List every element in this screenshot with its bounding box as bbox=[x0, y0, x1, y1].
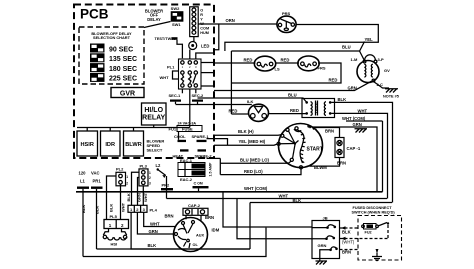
svg-text:1.5 AMP: 1.5 AMP bbox=[209, 162, 213, 176]
svg-text:CAP-2: CAP-2 bbox=[188, 203, 201, 208]
svg-text:GRN: GRN bbox=[353, 122, 362, 127]
svg-text:PL2: PL2 bbox=[116, 167, 124, 172]
bus BLK lower bbox=[250, 198, 392, 203]
wire PL1 col3 up bbox=[196, 53, 214, 59]
inducer motor IDM bbox=[174, 218, 220, 252]
svg-text:PL1: PL1 bbox=[167, 64, 175, 69]
dip switch 90 SEC bbox=[90, 44, 133, 54]
svg-text:WHT (COM): WHT (COM) bbox=[244, 186, 268, 191]
svg-text:BLK: BLK bbox=[148, 243, 157, 248]
wire BLU(MED LO) speed tap bbox=[220, 157, 291, 163]
svg-text:PCB: PCB bbox=[80, 7, 109, 22]
svg-text:BRN: BRN bbox=[325, 129, 334, 134]
relay HI/LO RELAY bbox=[142, 103, 167, 125]
ground chassis (motor) bbox=[355, 129, 368, 133]
svg-text:RED: RED bbox=[290, 108, 299, 113]
terminal COOL bbox=[174, 132, 186, 143]
svg-text:BLK: BLK bbox=[126, 193, 131, 201]
blower-off delay selection chart box bbox=[79, 27, 144, 84]
gas valve GV bbox=[351, 51, 391, 87]
pointer line from SW1 to chart bbox=[144, 22, 171, 28]
wire TEST pad to PL1 bbox=[177, 40, 182, 59]
svg-text:TRAN: TRAN bbox=[314, 102, 319, 113]
terminal SPARE-2 bbox=[195, 149, 221, 158]
svg-text:WHT: WHT bbox=[150, 221, 160, 226]
svg-text:RED (LO): RED (LO) bbox=[244, 169, 263, 174]
svg-text:180 SEC: 180 SEC bbox=[109, 66, 137, 73]
svg-text:PRS: PRS bbox=[282, 11, 291, 16]
wire RED LS to FRS bbox=[275, 57, 299, 63]
terminal SPARE-1 bbox=[192, 134, 228, 145]
interlock switch ILK bbox=[247, 99, 269, 121]
svg-text:WHT: WHT bbox=[121, 202, 126, 212]
switch SW2/SW1 dip bbox=[171, 6, 184, 27]
rollout switch FRS bbox=[298, 56, 326, 71]
svg-text:YEL: YEL bbox=[365, 37, 374, 42]
svg-text:BRN: BRN bbox=[205, 215, 214, 220]
svg-text:1-M: 1-M bbox=[351, 57, 359, 62]
wire branch down from ORN bbox=[214, 24, 219, 50]
wire RED from FRS loop to transformer bottom-left bbox=[229, 108, 307, 114]
terminal SEC-1 bbox=[169, 93, 182, 104]
wire BRN motor to CAP-1 top bbox=[314, 128, 340, 138]
PCB board outline (dashed) bbox=[74, 5, 214, 159]
svg-text:Y: Y bbox=[200, 18, 203, 22]
svg-text:HSI: HSI bbox=[111, 242, 118, 247]
fuse FU2 bbox=[362, 222, 389, 234]
wire PL1 col2 down to relay bus bbox=[189, 89, 191, 128]
svg-text:3: 3 bbox=[149, 182, 151, 186]
dip switch 135 SEC bbox=[90, 53, 137, 63]
fuse FU1 24VAC-3A bbox=[169, 121, 203, 131]
svg-text:L1: L1 bbox=[80, 178, 86, 183]
dip switch 225 SEC bbox=[90, 73, 137, 83]
wire into PL2 pin1 bbox=[107, 176, 117, 220]
svg-text:SELECT: SELECT bbox=[147, 148, 163, 153]
terminal L1 bbox=[77, 187, 89, 257]
terminal PR2 bbox=[161, 176, 173, 199]
wire PL1 rows to right bbox=[201, 62, 214, 64]
dip switch 180 SEC bbox=[90, 63, 137, 73]
svg-text:90 SEC: 90 SEC bbox=[109, 46, 133, 53]
svg-text:BLU: BLU bbox=[288, 93, 297, 98]
field power labels 120 VAC L1 PR1 bbox=[79, 171, 102, 184]
svg-text:(WHT): (WHT) bbox=[342, 240, 355, 245]
TEST/TWIN pads bbox=[155, 37, 178, 41]
svg-text:BRN: BRN bbox=[165, 214, 174, 219]
blower off delay label bbox=[145, 9, 163, 22]
ground below JB bbox=[316, 261, 328, 265]
svg-text:BLK: BLK bbox=[95, 206, 100, 214]
svg-text:SW2: SW2 bbox=[171, 6, 180, 11]
svg-text:IDM: IDM bbox=[212, 228, 220, 233]
svg-text:GRN: GRN bbox=[137, 193, 142, 202]
wire PL3 pin2 to PL4 bbox=[138, 178, 140, 206]
svg-text:PL5: PL5 bbox=[110, 214, 118, 219]
svg-text:2: 2 bbox=[126, 182, 128, 186]
blower motor BLWM bbox=[277, 124, 327, 170]
svg-text:GRN: GRN bbox=[318, 243, 327, 248]
svg-text:COOL: COOL bbox=[174, 134, 186, 139]
wire PL4 pin3 WHT to IDM bbox=[144, 212, 176, 226]
wire PL2 pin2 down to PL5 bbox=[120, 184, 122, 220]
wire BRN CAP-1 bottom to motor bbox=[310, 158, 347, 167]
svg-text:PR2: PR2 bbox=[162, 183, 171, 188]
svg-text:1: 1 bbox=[149, 171, 151, 175]
svg-text:RED: RED bbox=[329, 78, 338, 83]
svg-text:SELECTION CHART: SELECTION CHART bbox=[93, 35, 131, 40]
dashed lead disconnect internal bbox=[376, 225, 389, 253]
svg-text:PL4: PL4 bbox=[150, 207, 158, 212]
wire BLK(H) speed tap bbox=[214, 129, 281, 135]
wire BRN cap-2 left bbox=[165, 214, 187, 220]
svg-text:DELAY: DELAY bbox=[147, 17, 161, 22]
svg-text:BLK (H): BLK (H) bbox=[238, 129, 254, 134]
svg-text:SW1: SW1 bbox=[172, 22, 181, 27]
wire RED(LO) speed tap bbox=[220, 158, 301, 174]
svg-text:WHT: WHT bbox=[358, 108, 368, 113]
svg-text:RELAY: RELAY bbox=[142, 114, 165, 121]
switch L2 bbox=[156, 163, 166, 178]
wire WHT transformer to right vertical bbox=[332, 108, 388, 198]
svg-text:GV: GV bbox=[384, 68, 390, 73]
labels JB wires BLK WHT BRN bbox=[342, 230, 355, 255]
terminal strip O R Y W COM HUM bbox=[190, 7, 209, 37]
connector PL3 bbox=[139, 163, 151, 186]
bus WHT middle bbox=[167, 193, 388, 198]
svg-text:PR1: PR1 bbox=[93, 178, 102, 183]
svg-text:HUM: HUM bbox=[200, 31, 209, 35]
svg-text:ILK: ILK bbox=[247, 99, 254, 104]
LED bbox=[189, 37, 210, 50]
wire BLK transformer to right vertical bbox=[332, 97, 393, 202]
svg-text:HSIR: HSIR bbox=[81, 142, 94, 148]
svg-text:225 SEC: 225 SEC bbox=[109, 76, 137, 83]
svg-text:RED: RED bbox=[281, 57, 290, 62]
svg-text:VAC: VAC bbox=[91, 171, 100, 176]
terminal HEAT bbox=[173, 149, 189, 158]
svg-text:OL: OL bbox=[193, 243, 199, 247]
wire RED from PL1 to LS bbox=[214, 57, 256, 63]
wire WHT to JB bbox=[237, 199, 327, 239]
wire SEC-1 to ILK bbox=[176, 104, 252, 106]
svg-text:PL3: PL3 bbox=[140, 163, 148, 168]
wire FRS return loop RED bbox=[231, 63, 341, 83]
limit switch LS bbox=[254, 56, 280, 71]
svg-text:WHT (COM): WHT (COM) bbox=[342, 116, 366, 121]
svg-text:START: START bbox=[307, 146, 323, 152]
svg-text:ORN: ORN bbox=[226, 18, 235, 23]
connector PL1 bbox=[167, 59, 201, 89]
svg-text:AUX: AUX bbox=[196, 234, 204, 238]
svg-text:COM: COM bbox=[200, 27, 209, 31]
svg-text:BLK: BLK bbox=[338, 97, 347, 102]
wire PL3 pin1 loop to PL4 bbox=[132, 172, 140, 205]
svg-text:RED: RED bbox=[244, 57, 253, 62]
wire BLU corner down to transformer line bbox=[230, 51, 232, 114]
svg-text:BRN: BRN bbox=[337, 161, 346, 166]
svg-text:WHT: WHT bbox=[143, 192, 148, 202]
wire PL3 pin3 to PL4 bbox=[142, 186, 144, 205]
svg-text:C: C bbox=[194, 180, 197, 185]
svg-text:FRS: FRS bbox=[318, 66, 326, 71]
wire PL1 pins down to SEC terminals bbox=[182, 89, 195, 93]
svg-text:WHT: WHT bbox=[160, 75, 170, 80]
wire PRS to right and down (YEL return) bbox=[225, 25, 378, 52]
terminal PR1 bbox=[91, 187, 103, 250]
svg-text:GVR: GVR bbox=[120, 91, 135, 98]
transformer TRAN bbox=[302, 99, 335, 118]
EAC-1 EAC-2 terminals bbox=[178, 158, 213, 182]
svg-text:1: 1 bbox=[126, 175, 128, 179]
svg-text:WHT: WHT bbox=[279, 193, 289, 198]
connector PL4 bbox=[128, 205, 158, 212]
svg-text:2: 2 bbox=[149, 176, 151, 180]
fused disconnect dashed box bbox=[358, 216, 402, 261]
svg-text:BLK: BLK bbox=[293, 198, 302, 203]
svg-text:BLWR: BLWR bbox=[125, 142, 141, 148]
svg-text:SWITCH (WHEN REQ'D): SWITCH (WHEN REQ'D) bbox=[352, 210, 396, 214]
connector PL5 bbox=[104, 214, 129, 229]
wire PL4 pin2 GRN to IDM bbox=[137, 212, 174, 234]
dashed leads JB to disconnect bbox=[340, 226, 389, 249]
wire WHT(COM) right vertical bbox=[342, 116, 383, 192]
svg-text:HI/LO: HI/LO bbox=[144, 107, 163, 114]
svg-text:3-P: 3-P bbox=[378, 57, 385, 62]
svg-text:L2: L2 bbox=[156, 163, 162, 168]
svg-text:EAC-2: EAC-2 bbox=[180, 177, 193, 182]
svg-text:NOTE #5: NOTE #5 bbox=[383, 95, 399, 99]
wire SEC-2 to transformer BLU bbox=[198, 93, 307, 103]
wire BLK net to JB bbox=[83, 192, 328, 257]
capacitor CAP-2 bbox=[183, 203, 208, 215]
wire BRN cap-2 right bbox=[201, 215, 214, 221]
wire PL4 pin1 BLK to IDM/OL bbox=[131, 212, 250, 249]
wire YEL(MED HI) speed tap bbox=[214, 139, 277, 145]
terminal SEC-2 bbox=[192, 93, 205, 104]
svg-text:BLK: BLK bbox=[342, 230, 351, 235]
svg-text:GRN: GRN bbox=[149, 229, 158, 234]
svg-text:BLK: BLK bbox=[81, 205, 86, 213]
motor winding ticks bbox=[309, 125, 317, 131]
svg-text:IDR: IDR bbox=[105, 142, 115, 148]
bus WHT (COM) bbox=[76, 186, 383, 192]
wire ORN from strip to PRS bbox=[198, 18, 277, 24]
wire GRN to GV 2-C and note 5 ground bbox=[214, 81, 389, 91]
svg-text:BLU (MED LO): BLU (MED LO) bbox=[240, 157, 269, 162]
svg-text:FU2: FU2 bbox=[365, 231, 372, 235]
relay boxes HSIR IDR BLWR bbox=[77, 131, 144, 156]
igniter HSI bbox=[103, 229, 127, 247]
svg-text:BLK: BLK bbox=[109, 204, 114, 212]
connector PL2 bbox=[116, 167, 128, 186]
capacitor CAP-1 bbox=[335, 138, 361, 158]
svg-text:GRN: GRN bbox=[348, 86, 357, 91]
svg-text:JB: JB bbox=[323, 215, 328, 220]
fused disconnect switch label bbox=[352, 206, 396, 214]
svg-text:24 VAC-3A: 24 VAC-3A bbox=[178, 121, 197, 125]
svg-text:RED: RED bbox=[229, 109, 238, 114]
terminal COM bbox=[193, 180, 209, 192]
PL1 WHT label + bracket bbox=[160, 71, 179, 80]
ground in disconnect bbox=[372, 257, 382, 261]
svg-text:135 SEC: 135 SEC bbox=[109, 56, 137, 63]
svg-text:O: O bbox=[200, 9, 203, 13]
svg-text:CAP -1: CAP -1 bbox=[347, 146, 361, 151]
svg-text:SEC-1: SEC-1 bbox=[169, 93, 182, 98]
wire BLU to gas valve bbox=[231, 42, 364, 52]
svg-text:LS: LS bbox=[275, 66, 280, 71]
svg-text:120: 120 bbox=[79, 171, 87, 176]
relay GVR box bbox=[111, 88, 144, 98]
wire PR1 lower run bbox=[97, 203, 251, 250]
blower speed select label bbox=[147, 139, 165, 153]
svg-text:BRN: BRN bbox=[342, 250, 351, 255]
svg-text:R: R bbox=[200, 13, 203, 17]
svg-text:SEC-2: SEC-2 bbox=[192, 93, 205, 98]
svg-text:LED: LED bbox=[201, 43, 209, 48]
svg-text:OM: OM bbox=[197, 182, 203, 186]
wire LED to PL1 bbox=[189, 50, 191, 60]
ground NOTE #5 bbox=[383, 89, 399, 99]
svg-text:BLU: BLU bbox=[342, 45, 351, 50]
pressure switch PRS bbox=[277, 11, 296, 33]
wire relay bus over HSIR IDR BLWR bbox=[77, 125, 190, 131]
wire GRN motor ground to right vertical bbox=[308, 122, 377, 192]
junction box JB bbox=[312, 215, 340, 261]
svg-text:YEL (MED HI): YEL (MED HI) bbox=[239, 139, 266, 144]
